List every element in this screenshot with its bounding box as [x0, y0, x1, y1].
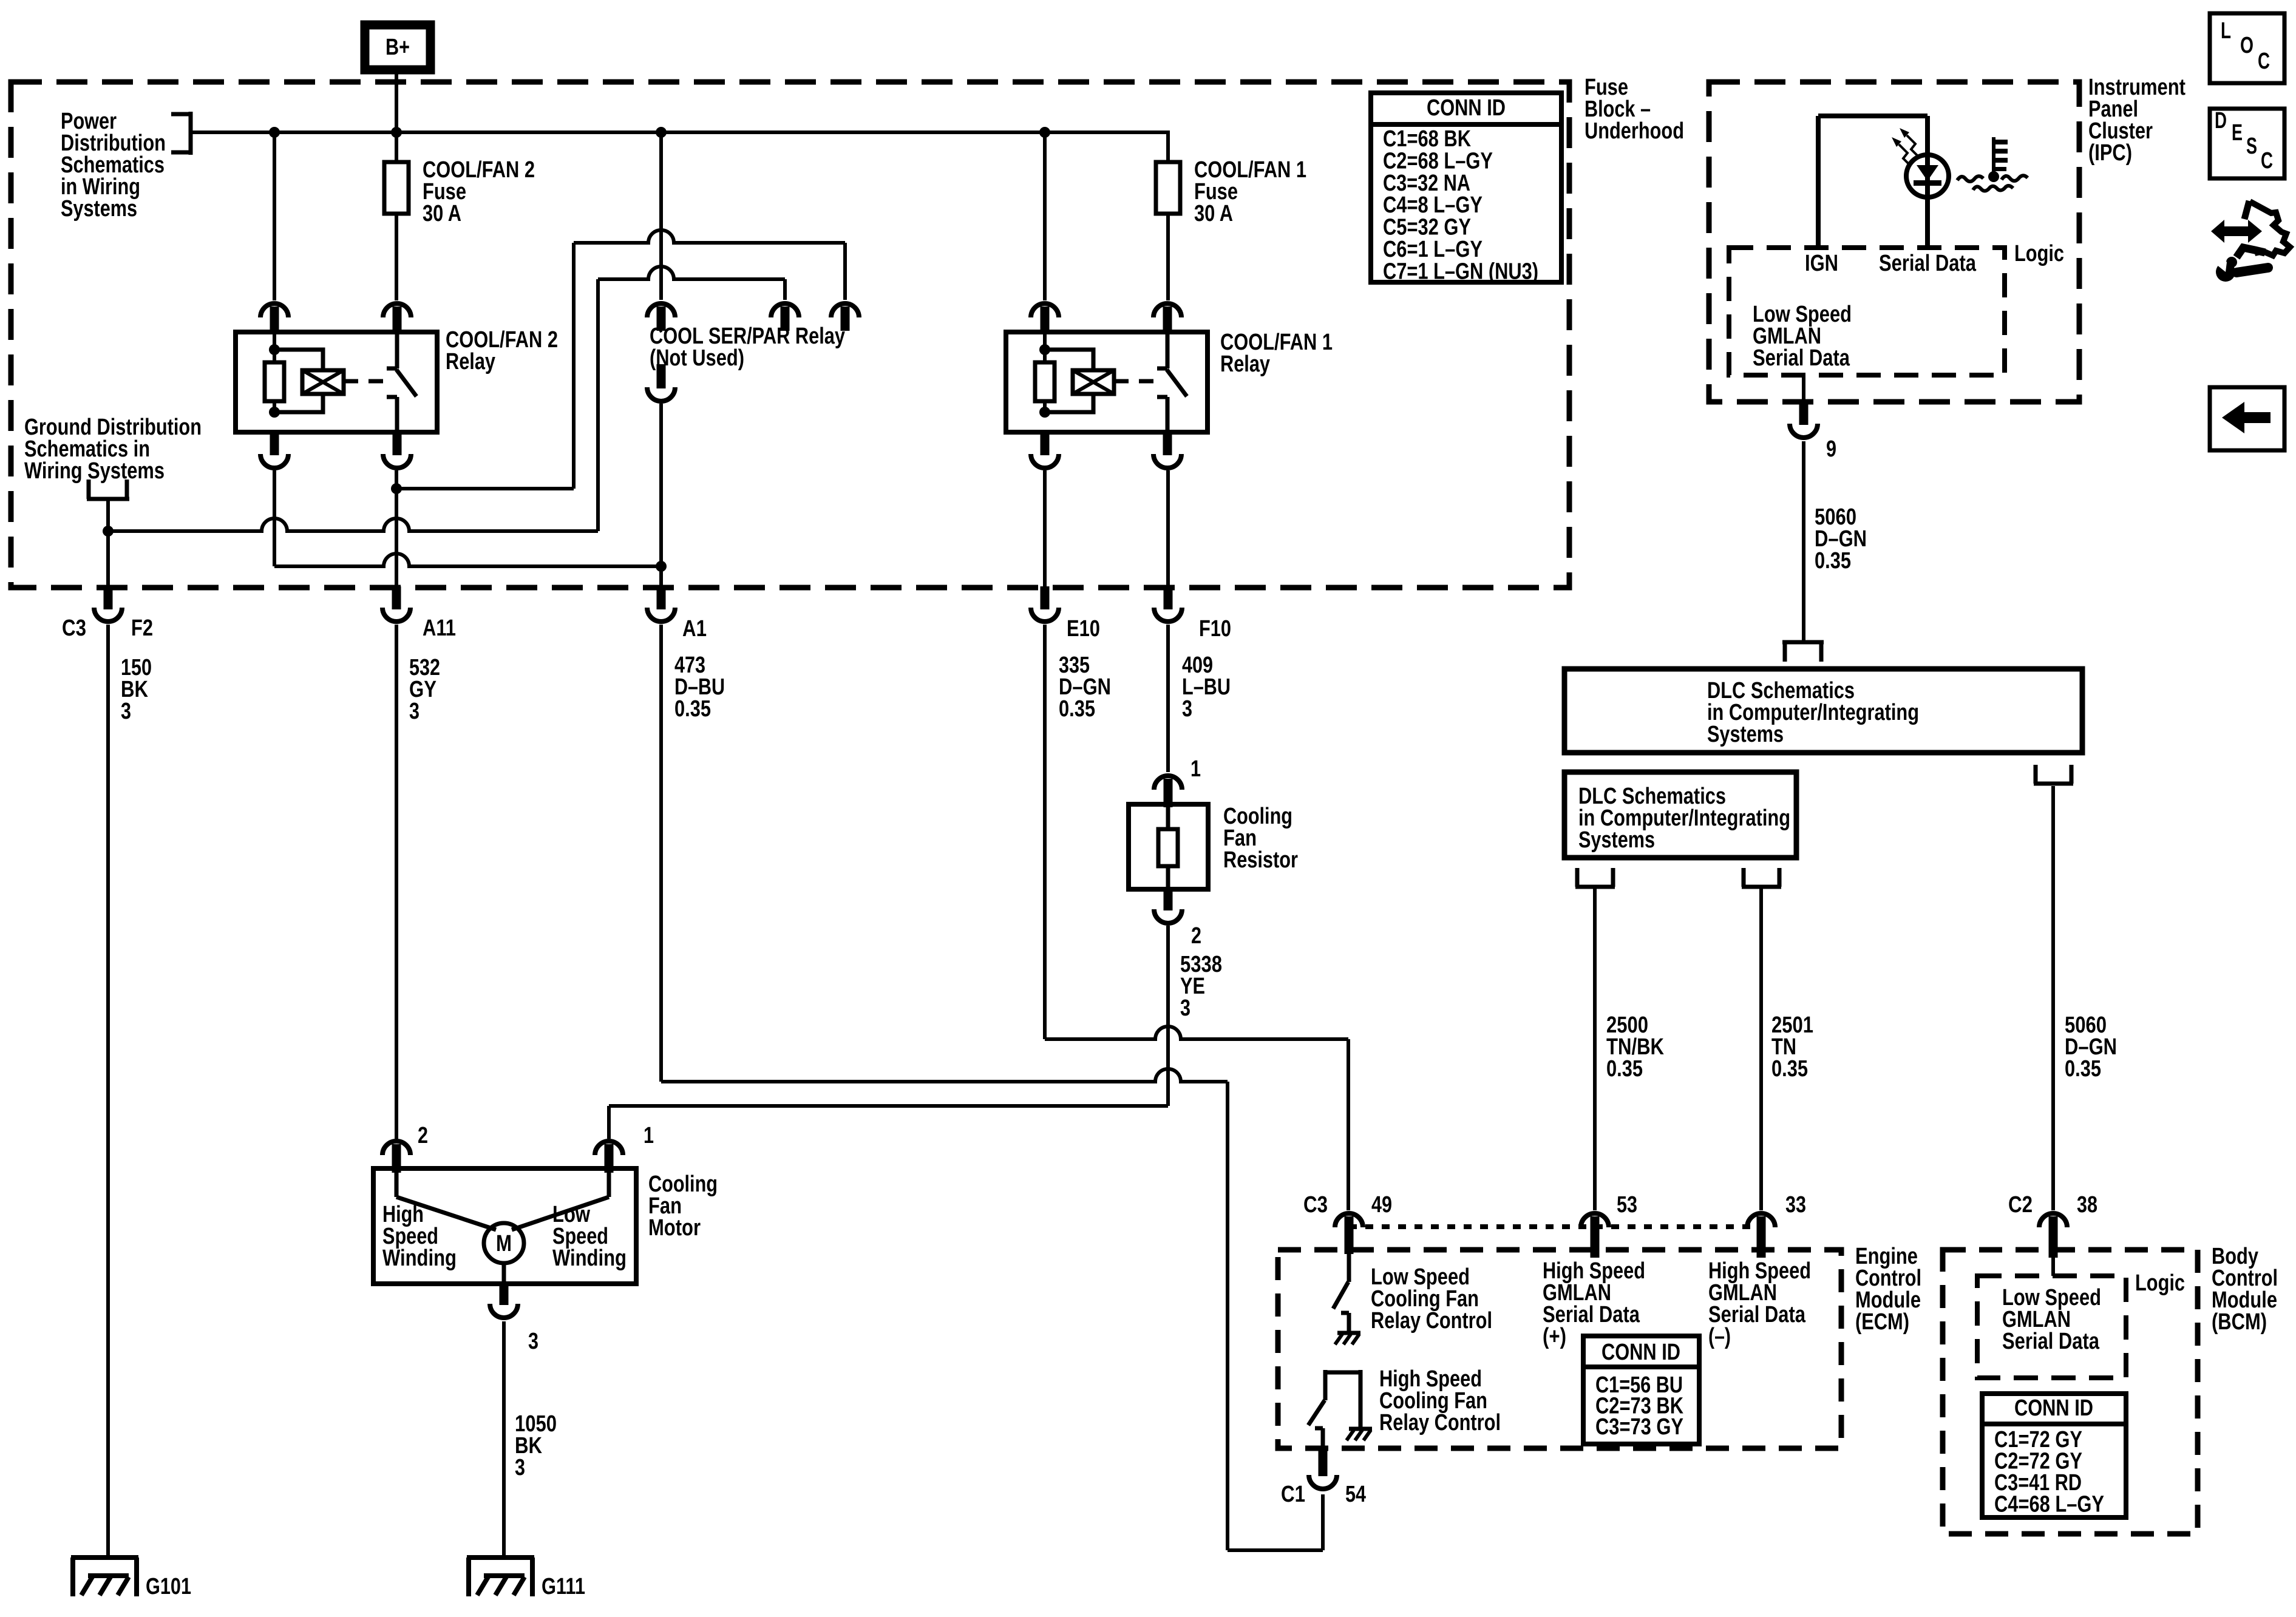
svg-text:IGN: IGN: [1805, 251, 1838, 276]
wire 5060 D-GN from DLC to BCM: [2051, 786, 2055, 1210]
svg-text:30 A: 30 A: [1194, 201, 1233, 226]
wire 5060 D-GN from IPC to DLC: [1802, 441, 1805, 642]
page-link bracket under small DLC box (33): [1742, 868, 1781, 887]
relay COOL/FAN 2 coil pin connector (bottom): [260, 431, 288, 468]
svg-text:1: 1: [1190, 756, 1201, 782]
svg-text:9: 9: [1826, 436, 1836, 462]
node junction SER/PAR relay feed: [656, 127, 667, 138]
svg-text:Systems: Systems: [1707, 722, 1784, 747]
back navigation icon: [2210, 387, 2284, 450]
relay COOL/FAN 1 switch pin connector (bottom): [1153, 431, 1181, 468]
wire B+ to power feed line: [395, 72, 398, 132]
svg-text:Motor: Motor: [648, 1215, 701, 1241]
svg-text:C7=1 L–GN (NU3): C7=1 L–GN (NU3): [1383, 259, 1538, 284]
svg-text:Relay: Relay: [1220, 351, 1270, 377]
svg-text:C3: C3: [62, 615, 86, 641]
page-link bracket under big DLC box: [2034, 765, 2073, 784]
label Cooling Fan Resistor: [1223, 804, 1298, 873]
relay COOL/FAN 2 actuation dashed link: [344, 379, 387, 384]
svg-text:0.35: 0.35: [1606, 1056, 1643, 1082]
relay COOL/FAN 1 actuation dashed link: [1114, 379, 1158, 384]
svg-text:C2: C2: [2008, 1192, 2033, 1218]
wire SER/PAR bottom pin down to A1: [659, 404, 663, 586]
svg-text:Wiring Systems: Wiring Systems: [24, 458, 165, 484]
relay COOL/FAN 2 switch pin connector (top): [383, 303, 411, 334]
connector C1 pin 54: [1309, 1451, 1337, 1489]
page-link bracket: Ground Distribution: [87, 480, 129, 499]
wire label 2501 TN 0.35: [1771, 1012, 1813, 1082]
cooling fan resistor box: [1129, 804, 1208, 889]
ECM low speed switch internal ground: [1335, 1333, 1360, 1344]
svg-text:1: 1: [644, 1123, 654, 1148]
wire label 5060 D-GN 0.35 (IPC side): [1815, 504, 1867, 574]
svg-text:Underhood: Underhood: [1584, 118, 1684, 144]
connector A11: [382, 586, 410, 622]
wire 532 GY down to motor pin 2: [395, 625, 398, 1139]
svg-text:(IPC): (IPC): [2088, 140, 2132, 166]
wire label 473 D-BU 0.35: [674, 653, 725, 722]
svg-text:Resistor: Resistor: [1223, 847, 1298, 873]
wire label 2500 TN/BK 0.35: [1606, 1012, 1664, 1082]
label Engine Control Module (ECM): [1855, 1244, 1921, 1335]
relay COOL/FAN 2 box: [236, 332, 437, 432]
connector C2 pin 38: [2039, 1213, 2067, 1258]
svg-text:(+): (+): [1543, 1324, 1566, 1349]
B+ battery terminal box: [365, 25, 430, 70]
wire relay2 switch output down to A11: [395, 470, 398, 586]
connector A1: [647, 586, 675, 622]
label High Speed GMLAN Serial Data (-): [1708, 1258, 1811, 1349]
motor winding wires: [396, 1173, 609, 1284]
wire relay1 coil return down to E10: [1043, 470, 1047, 586]
COOL SER/PAR relay pin connector (middle, from ground bus): [771, 303, 799, 331]
relay COOL/FAN 2 switch: [387, 334, 416, 432]
label High Speed GMLAN Serial Data (+): [1543, 1258, 1645, 1349]
wire relay2 switch output to SER/PAR right pin: [396, 230, 845, 489]
connector C3/F2: [94, 586, 122, 622]
svg-text:2: 2: [1191, 923, 1201, 949]
wire ground bus to SER/PAR middle pin (hops over relay2 columns): [108, 266, 785, 531]
relay COOL/FAN 2 coil pin connector (top): [260, 303, 288, 334]
wire 335 D-GN down from E10: [1043, 625, 1047, 1039]
cooling fan resistor element: [1158, 807, 1178, 889]
cooling fan motor box: [373, 1168, 636, 1284]
svg-text:Logic: Logic: [2135, 1270, 2185, 1296]
svg-text:C1: C1: [1281, 1482, 1305, 1507]
svg-text:Serial Data: Serial Data: [2002, 1329, 2100, 1354]
svg-text:F2: F2: [131, 615, 153, 641]
svg-text:C3: C3: [1303, 1192, 1328, 1218]
svg-text:C: C: [2261, 148, 2273, 174]
ground G101: [71, 1558, 138, 1596]
electrical repair icon (arrows + wrench): [2207, 201, 2290, 282]
wire power feed bus y=218: [191, 131, 1168, 134]
svg-text:L: L: [2221, 18, 2231, 44]
relay COOL/FAN 1 coil (crossed box): [1073, 370, 1114, 394]
wire 150 BK down to G101: [106, 625, 110, 1558]
svg-text:0.35: 0.35: [1771, 1056, 1808, 1082]
relay COOL/FAN 2 coil resistor: [265, 362, 284, 401]
svg-text:S: S: [2246, 134, 2257, 159]
page-link bracket under small DLC box (53): [1575, 868, 1615, 887]
Body Control Module dashed box: [1943, 1250, 2198, 1534]
svg-text:E: E: [2232, 120, 2243, 146]
wire label 532 GY 3: [409, 655, 440, 724]
label COOL/FAN 1 Relay: [1220, 330, 1333, 377]
svg-text:Relay Control: Relay Control: [1379, 1410, 1501, 1436]
relay COOL/FAN 2 switch pin connector (bottom): [383, 431, 411, 468]
svg-text:3: 3: [1180, 995, 1190, 1021]
ground G111: [467, 1558, 534, 1596]
svg-text:30 A: 30 A: [423, 201, 461, 226]
CONN ID table (ECM): [1583, 1336, 1699, 1444]
svg-text:33: 33: [1785, 1192, 1806, 1218]
svg-text:0.35: 0.35: [674, 696, 711, 722]
motor M symbol: [484, 1223, 524, 1263]
node junction B+/fuse2: [391, 127, 402, 138]
svg-text:54: 54: [1345, 1482, 1366, 1507]
svg-text:E10: E10: [1067, 616, 1100, 642]
label Low Speed Cooling Fan Relay Control: [1371, 1264, 1492, 1334]
node junction relay1 coil feed: [1039, 127, 1050, 138]
wire label 150 BK 3: [121, 655, 152, 724]
label High Speed Winding: [382, 1202, 457, 1271]
label COOL/FAN 1 Fuse 30 A: [1194, 157, 1306, 226]
wire fuse2 to relay2 switch: [395, 214, 398, 300]
svg-text:49: 49: [1371, 1192, 1392, 1218]
wire 1050 BK down to G111: [502, 1321, 506, 1558]
wire label 335 D-GN 0.35: [1059, 653, 1111, 722]
label Cooling Fan Motor: [648, 1171, 718, 1241]
CONN ID table (fuse block): [1371, 93, 1561, 284]
LED emission arrows: [1892, 128, 1918, 166]
svg-text:Systems: Systems: [1578, 827, 1655, 853]
svg-text:38: 38: [2077, 1192, 2097, 1218]
wire 335 D-GN across to ECM (hops over 5338 YE): [1045, 1026, 1348, 1210]
svg-text:0.35: 0.35: [1815, 548, 1851, 574]
relay COOL/FAN 2 coil (crossed box): [302, 370, 344, 394]
node junction relay2-coil-return joins A1 wire: [656, 561, 667, 572]
wire label 1050 BK 3: [515, 1411, 557, 1480]
wire 409 L-BU down to cooling fan resistor: [1166, 625, 1170, 772]
svg-text:Serial Data: Serial Data: [1753, 345, 1850, 371]
IPC internal circuit wires: [1818, 116, 1927, 248]
svg-text:3: 3: [121, 699, 131, 724]
resistor pin 1 connector: [1154, 776, 1182, 807]
svg-text:Relay: Relay: [446, 349, 495, 375]
coolant temperature icon (thermometer in liquid): [1957, 137, 2028, 191]
label Instrument Panel Cluster (IPC): [2088, 75, 2186, 166]
relay COOL/FAN 1 switch pin connector (top): [1153, 303, 1181, 334]
wire 2501 TN: [1759, 889, 1763, 1210]
ECM high speed relay control switch: [1308, 1370, 1360, 1451]
wire feed to relay1 coil: [1043, 132, 1047, 300]
wire feed to COOL SER/PAR relay pin: [659, 132, 663, 300]
ECM low speed relay control switch: [1333, 1254, 1349, 1331]
node junction B+/relay2 coil feed: [269, 127, 280, 138]
connector E10: [1031, 586, 1059, 622]
label Low Speed Winding: [552, 1202, 627, 1271]
motor pin 1 connector: [595, 1141, 623, 1173]
svg-text:Systems: Systems: [61, 196, 137, 222]
CONN ID table (BCM): [1982, 1394, 2126, 1517]
svg-text:CONN ID: CONN ID: [1601, 1340, 1680, 1365]
svg-text:2: 2: [418, 1123, 428, 1148]
wire ground bracket down to F2: [106, 499, 110, 586]
wire label 409 L-BU 3: [1182, 653, 1231, 722]
relay COOL/FAN 1 coil resistor: [1035, 362, 1055, 401]
LOC icon box: [2210, 13, 2284, 83]
COOL SER/PAR relay bottom pin connector: [647, 364, 675, 401]
node junction relay2 switch output: [391, 483, 402, 494]
label Ground Distribution Schematics in Wiring Systems: [24, 415, 202, 484]
svg-text:Serial Data: Serial Data: [1879, 251, 1977, 276]
svg-text:G101: G101: [146, 1574, 191, 1599]
DLC Schematics big box: [1564, 669, 2082, 753]
wire feed to fuse2: [395, 132, 398, 162]
relay COOL/FAN 1 coil pin connector (top): [1031, 303, 1059, 334]
svg-text:3: 3: [1182, 696, 1192, 722]
svg-text:Winding: Winding: [552, 1246, 627, 1271]
IPC coolant temp indicator LED: [1906, 155, 1949, 197]
svg-text:(ECM): (ECM): [1855, 1309, 1909, 1335]
wire feed to relay2 coil: [273, 132, 276, 300]
Fuse Block - Underhood dashed box: [11, 82, 1569, 588]
svg-text:3: 3: [515, 1455, 525, 1480]
svg-text:Relay Control: Relay Control: [1371, 1308, 1492, 1334]
svg-text:53: 53: [1617, 1192, 1637, 1218]
connector F10: [1154, 586, 1182, 622]
IPC pin 9 connector: [1790, 375, 1818, 438]
wire label 5060 D-GN 0.35 (BCM side): [2065, 1012, 2117, 1082]
relay COOL/FAN 1 coil pin connector (bottom): [1031, 431, 1059, 468]
svg-text:(BCM): (BCM): [2212, 1309, 2267, 1335]
svg-text:O: O: [2240, 33, 2254, 58]
wire 473 D-BU down from A1: [659, 625, 663, 1082]
label Low Speed GMLAN Serial Data (IPC): [1753, 302, 1852, 371]
COOL SER/PAR relay pin connector (feed): [647, 303, 675, 331]
label COOL SER/PAR Relay (Not Used): [650, 324, 845, 371]
svg-text:0.35: 0.35: [2065, 1056, 2101, 1082]
svg-text:G111: G111: [542, 1574, 585, 1599]
IPC Logic dashed box: [1729, 248, 2005, 375]
svg-text:M: M: [496, 1231, 512, 1256]
wire C2-38 to BCM logic: [2051, 1258, 2055, 1276]
relay COOL/FAN 1 box: [1006, 332, 1207, 432]
DLC Schematics small box: [1564, 772, 1796, 858]
connector C3 pin 49: [1335, 1213, 1363, 1254]
svg-text:Winding: Winding: [382, 1246, 457, 1271]
svg-text:0.35: 0.35: [1059, 696, 1095, 722]
wire relay2 coil return to A1 wire (hops over switch column): [274, 470, 661, 566]
wire fuse1 to relay1 switch: [1166, 214, 1170, 300]
COOL SER/PAR relay pin connector (right, from relay2 output): [831, 303, 859, 331]
svg-text:3: 3: [409, 699, 419, 724]
wire 473 D-BU across to ECM (hops over 5338 YE): [661, 1069, 1323, 1550]
wire 2500 TN/BK: [1593, 889, 1597, 1210]
svg-text:CONN ID: CONN ID: [1427, 95, 1506, 121]
svg-text:D: D: [2215, 108, 2227, 134]
label Power Distribution Schematics in Wiring Systems: [61, 109, 166, 222]
relay COOL/FAN 1 switch: [1157, 334, 1187, 432]
ECM high speed switch internal ground: [1347, 1429, 1372, 1440]
wire label 5338 YE 3: [1180, 952, 1222, 1021]
label Body Control Module (BCM): [2212, 1244, 2278, 1335]
svg-text:B+: B+: [385, 35, 410, 60]
svg-text:C: C: [2258, 49, 2270, 74]
svg-text:F10: F10: [1199, 616, 1231, 642]
svg-text:CONN ID: CONN ID: [2014, 1395, 2093, 1421]
connector pin 33: [1747, 1213, 1775, 1258]
svg-text:3: 3: [528, 1329, 538, 1354]
label Low Speed GMLAN Serial Data (BCM): [2002, 1285, 2101, 1354]
label High Speed Cooling Fan Relay Control: [1379, 1366, 1501, 1436]
wire 5338 YE down and left to motor pin 1: [609, 926, 1168, 1139]
connector pin 53: [1581, 1213, 1609, 1258]
relay COOL/FAN 2 coil internal wiring: [269, 334, 323, 418]
label Fuse Block - Underhood: [1584, 75, 1684, 144]
fuse COOL/FAN 2: [384, 162, 409, 214]
motor pin 2 connector: [382, 1141, 410, 1173]
relay COOL/FAN 1 coil internal wiring: [1039, 334, 1093, 418]
node junction ground bus: [103, 526, 114, 537]
svg-text:C3=73 GY: C3=73 GY: [1595, 1414, 1683, 1440]
Instrument Panel Cluster dashed box: [1709, 82, 2079, 402]
svg-text:A11: A11: [423, 615, 456, 641]
wire feed to fuse1: [1166, 131, 1170, 162]
page-link bracket above big DLC box: [1782, 642, 1824, 662]
motor pin 3 connector: [490, 1283, 518, 1318]
fuse COOL/FAN 1: [1156, 162, 1180, 214]
BCM Logic dashed box: [1977, 1276, 2126, 1378]
wire relay1 switch output down to F10: [1166, 470, 1170, 586]
ECM dashed box: [1278, 1250, 1841, 1448]
resistor pin 2 connector: [1154, 888, 1182, 923]
page-link bracket: Power Distribution: [171, 112, 191, 155]
label COOL/FAN 2 Relay: [446, 327, 558, 375]
svg-text:A1: A1: [682, 616, 707, 642]
svg-text:C4=68 L–GY: C4=68 L–GY: [1994, 1492, 2104, 1517]
svg-text:Logic: Logic: [2014, 241, 2064, 266]
DESC icon box: [2210, 108, 2284, 178]
svg-text:(–): (–): [1708, 1324, 1731, 1349]
label COOL/FAN 2 Fuse 30 A: [423, 157, 535, 226]
ECM connector dotted tie line: [1349, 1224, 1761, 1229]
